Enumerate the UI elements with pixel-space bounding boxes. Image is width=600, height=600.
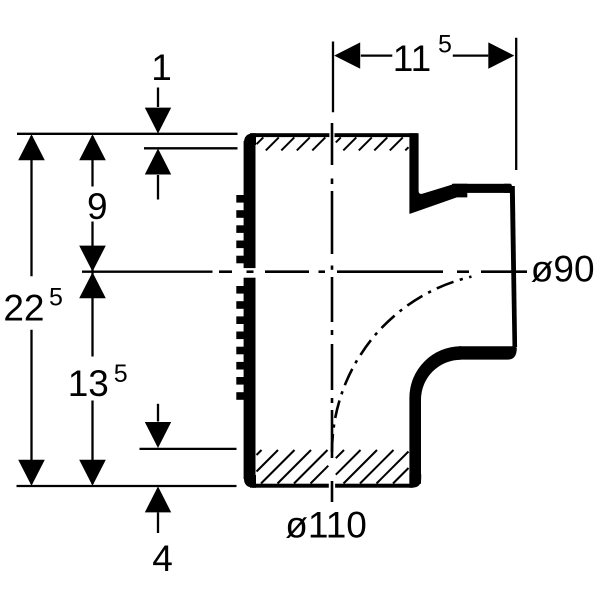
vertical pipe centerline (331, 123, 334, 165)
bottom socket hatching (257, 450, 262, 455)
extension line inner bottom (y=449) (140, 448, 237, 450)
horizontal branch centerline (219, 270, 232, 273)
curved branch centerline (331, 434, 334, 452)
svg-text:9: 9 (87, 186, 108, 227)
dim 1 lower arrow (145, 149, 171, 175)
dim 22.5 line (30, 136, 32, 276)
svg-text:ø90: ø90 (531, 249, 595, 290)
svg-text:5: 5 (438, 31, 452, 59)
dim 22.5 bottom arrow (18, 460, 45, 486)
svg-text:11: 11 (393, 38, 431, 79)
dim 1 upper arrow (145, 108, 171, 134)
branch upper wall and chamfer (409, 133, 467, 214)
branch socket top wall (452, 184, 509, 193)
branch socket top-right corner (504, 184, 515, 197)
branch socket bottom wall (459, 346, 517, 359)
dim 11.5 left arrow (334, 42, 360, 68)
svg-text:1: 1 (151, 47, 172, 88)
body left wall (244, 141, 256, 479)
dim 4 lower stem (157, 513, 159, 534)
dim 4 lower arrow (145, 486, 171, 512)
dim 13.5 bottom arrow (79, 460, 106, 486)
dim 13.5 top arrow (79, 272, 106, 298)
dim 4 upper stem (157, 404, 159, 422)
svg-text:ø110: ø110 (285, 505, 367, 546)
body bottom edge (250, 484, 413, 488)
svg-text:5: 5 (49, 283, 63, 311)
body bottom-right corner (409, 474, 421, 488)
body top-left corner (244, 133, 256, 145)
extension line centre (y=272) (82, 271, 213, 273)
dim 1 upper stem (157, 88, 159, 108)
left wall ribs (236, 195, 245, 203)
branch lower elbow (409, 346, 461, 484)
dim 1 lower stem (157, 175, 159, 200)
centerline gap in left wall (234, 268, 257, 278)
body top edge (250, 133, 417, 137)
dim 11.5 right arrow (488, 42, 514, 68)
extension line top (y=134) (17, 133, 238, 135)
dim 9 / 13.5 line (91, 136, 93, 187)
centerline break in top edge (329, 132, 334, 138)
dim 9 bottom arrow (79, 246, 106, 272)
dim 11.5 left extension (332, 42, 334, 113)
svg-text:4: 4 (152, 538, 173, 579)
top socket hatching (257, 137, 264, 144)
dim 11.5 line (361, 54, 393, 56)
centerline break in bottom edge (329, 483, 335, 489)
dim 22.5 top arrow (18, 134, 45, 160)
dim 11.5 right extension (515, 38, 517, 170)
svg-text:22: 22 (3, 287, 44, 328)
svg-text:5: 5 (114, 360, 128, 388)
svg-text:13: 13 (68, 363, 109, 404)
dim 4 upper arrow (145, 422, 171, 448)
extension line inner top (y=148) (144, 147, 238, 149)
dim 9 top arrow (79, 134, 106, 160)
extension line bottom (y=486) (17, 485, 237, 487)
branch end face (510, 186, 517, 347)
body bottom-left corner (244, 475, 256, 488)
